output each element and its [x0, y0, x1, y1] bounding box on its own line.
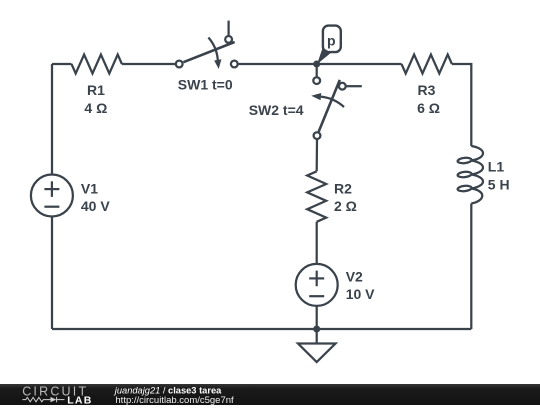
svg-text:5 H: 5 H	[488, 176, 510, 192]
inductor L1	[457, 146, 483, 204]
svg-text:40 V: 40 V	[81, 198, 110, 214]
voltage source V2	[296, 264, 338, 306]
voltage source V1	[31, 175, 73, 217]
svg-text:R2: R2	[334, 180, 352, 196]
node junction top (probe node)	[313, 61, 320, 68]
wire SW1 to R3	[238, 63, 401, 65]
wire R1 to SW1	[122, 63, 175, 65]
svg-text:LAB: LAB	[67, 395, 92, 405]
svg-text:10 V: 10 V	[346, 286, 375, 302]
svg-text:http://circuitlab.com/c5ge7nf: http://circuitlab.com/c5ge7nf	[115, 395, 234, 405]
switch SW2	[311, 77, 362, 139]
switch SW1	[176, 21, 238, 69]
svg-text:V1: V1	[81, 181, 98, 197]
ground	[298, 329, 336, 362]
svg-text:4 Ω: 4 Ω	[84, 100, 107, 116]
svg-text:V2: V2	[346, 269, 363, 285]
footer bar	[0, 384, 540, 405]
svg-text:6 Ω: 6 Ω	[417, 100, 440, 116]
wire junction to SW2	[316, 67, 318, 77]
resistor R3	[402, 55, 452, 74]
wire top-left horizontal	[52, 63, 72, 65]
wire R2 to V2	[316, 222, 318, 264]
resistor R1	[72, 55, 122, 74]
wire SW2 to R2	[316, 139, 319, 171]
svg-text:R1: R1	[87, 82, 105, 98]
svg-text:juandajg21 / clase3 tarea: juandajg21 / clase3 tarea	[113, 385, 222, 395]
svg-text:R3: R3	[418, 82, 436, 98]
wire R3 to top-right corner	[452, 64, 471, 146]
footer logo resistor-diode glyph	[22, 397, 64, 402]
svg-text:SW2 t=4: SW2 t=4	[249, 102, 304, 118]
svg-text:SW1 t=0: SW1 t=0	[178, 77, 233, 93]
wire L1 to bottom-right corner	[470, 204, 472, 330]
resistor R2	[307, 171, 326, 222]
wire V2 to rail	[316, 306, 318, 329]
node junction bottom rail	[313, 326, 320, 333]
svg-text:2 Ω: 2 Ω	[334, 198, 357, 214]
probe p	[317, 26, 341, 65]
svg-text:L1: L1	[488, 159, 505, 175]
bottom rail wire	[52, 328, 471, 330]
svg-text:p: p	[327, 33, 336, 49]
wire V1 to rail	[51, 217, 53, 329]
wire left side top	[51, 64, 53, 174]
